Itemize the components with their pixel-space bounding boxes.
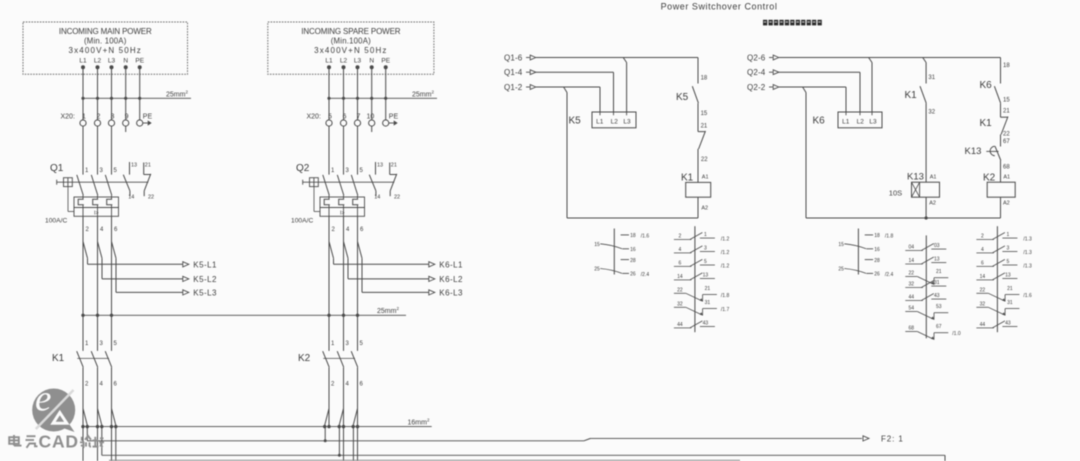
wire Q1-6 feed — [536, 57, 698, 59]
K2 output jog 3 — [353, 409, 357, 426]
arrow F2: 1 — [863, 436, 869, 441]
svg-text:L2: L2 — [611, 118, 619, 125]
Q1 main contact pole 1-2 — [77, 175, 84, 196]
svg-text:68: 68 — [909, 326, 915, 332]
PE arrow — [389, 122, 394, 124]
K2 linkage line — [323, 357, 355, 359]
K1 linkage line — [77, 357, 109, 359]
svg-text:4: 4 — [679, 247, 682, 253]
svg-text:N: N — [123, 58, 128, 65]
svg-text:28: 28 — [874, 258, 880, 264]
contact cross-reference K1 — [694, 226, 696, 332]
wire 5 to breaker Q2 — [357, 126, 359, 175]
svg-text:21: 21 — [705, 286, 711, 292]
bus L2 feed — [86, 427, 88, 441]
wire L3 main drop — [111, 67, 113, 120]
cable marker 25mm2 spare — [329, 97, 437, 99]
svg-text:13: 13 — [1005, 273, 1011, 279]
wire L1 spare drop — [328, 67, 330, 120]
wire K2.4 down — [343, 367, 345, 461]
K1 output jog 3 — [112, 409, 116, 426]
Q1 main contact pole 3-4 — [91, 175, 98, 196]
svg-text:/1.3: /1.3 — [1023, 237, 1032, 243]
wire N spare drop — [371, 67, 373, 120]
K2 output jog down — [352, 427, 354, 461]
incoming spare power source box — [268, 22, 434, 74]
branch to K5 L2 — [613, 72, 615, 112]
tap wire K6-L2 — [344, 242, 349, 259]
svg-text:/1.8: /1.8 — [885, 233, 894, 239]
svg-text:15: 15 — [838, 242, 844, 248]
svg-text:6: 6 — [981, 260, 984, 266]
Q2 main contact pole 5-6 — [351, 175, 358, 196]
svg-text:44: 44 — [909, 295, 915, 301]
svg-text:25mm2: 25mm2 — [412, 89, 434, 98]
Q1 trip linkage — [67, 187, 69, 212]
svg-text:L3: L3 — [108, 58, 116, 65]
svg-text:K6-L2: K6-L2 — [439, 275, 463, 284]
K2 main contact 5-6 — [351, 351, 358, 367]
terminal X20:10 — [369, 120, 375, 126]
svg-text:K6-L3: K6-L3 — [439, 289, 463, 298]
watermark text — [9, 435, 21, 446]
wire K1.6 down — [111, 367, 113, 461]
svg-text:2: 2 — [981, 234, 984, 240]
svg-text:PE: PE — [135, 58, 144, 65]
svg-text:6: 6 — [679, 260, 682, 266]
svg-text:18: 18 — [630, 233, 636, 239]
svg-text:/1.6: /1.6 — [1023, 293, 1032, 299]
contact cross-reference K2 — [996, 226, 998, 332]
svg-text:22: 22 — [909, 271, 915, 277]
svg-text:L3: L3 — [354, 58, 362, 65]
svg-text:15: 15 — [701, 111, 708, 117]
svg-text:21: 21 — [701, 123, 708, 129]
wire K2.6 down — [357, 367, 359, 461]
wire N stub below terminal — [371, 126, 373, 132]
svg-text:14: 14 — [128, 195, 134, 201]
K2 output jog to bus L3 — [338, 427, 340, 456]
svg-text:68: 68 — [1003, 164, 1010, 170]
svg-text:Q1-6: Q1-6 — [504, 53, 523, 62]
svg-text:67: 67 — [936, 324, 942, 330]
svg-text:54: 54 — [909, 306, 915, 312]
svg-text:5: 5 — [704, 259, 707, 265]
svg-text:13: 13 — [934, 257, 940, 263]
svg-text:Q1-2: Q1-2 — [504, 83, 523, 92]
tap wire K5-L3 — [112, 242, 117, 259]
svg-text:L3: L3 — [869, 118, 877, 125]
wire L1 main drop — [82, 67, 84, 120]
svg-text:K5-L1: K5-L1 — [193, 261, 217, 270]
svg-text:10: 10 — [367, 114, 375, 121]
wire Q2.2 down — [328, 216, 330, 351]
wire 5 to breaker Q1 — [111, 126, 113, 175]
wire N stub below terminal — [125, 126, 127, 132]
svg-text:L1: L1 — [79, 58, 87, 65]
branch to K1 31 contact — [923, 58, 926, 63]
svg-text:(Min.100A): (Min.100A) — [331, 37, 371, 46]
branch to K6 L1 — [845, 87, 847, 112]
svg-text:16: 16 — [874, 247, 880, 253]
svg-text:18: 18 — [1003, 63, 1010, 69]
source terminal dots main — [81, 65, 85, 69]
svg-text:/1.0: /1.0 — [952, 331, 961, 337]
K1 main contact 1-2 — [77, 351, 84, 367]
branch Q2-2 to return rail — [803, 87, 806, 93]
wire Q2.6 down — [357, 216, 359, 351]
svg-text:31: 31 — [928, 75, 935, 81]
Q1 aux NC contact 21-22 — [143, 163, 145, 175]
svg-text:L2: L2 — [340, 58, 348, 65]
Q2 aux NC contact 21-22 — [389, 163, 391, 175]
svg-text:Q1: Q1 — [50, 163, 64, 174]
svg-text:I>: I> — [94, 210, 98, 216]
tap wire K6-L3 — [358, 242, 363, 259]
svg-text:3x400V+N 50Hz: 3x400V+N 50Hz — [314, 46, 387, 55]
svg-text:2: 2 — [679, 234, 682, 240]
svg-text:A1: A1 — [930, 174, 937, 180]
wire K1.4 down — [97, 367, 99, 461]
control rail right K5 branch — [697, 58, 699, 84]
svg-text:31: 31 — [1007, 300, 1013, 306]
svg-text:/1.3: /1.3 — [1023, 263, 1032, 269]
contact cross-reference K13 — [925, 235, 927, 338]
svg-text:43: 43 — [703, 321, 709, 327]
wire Q2-4 feed — [779, 71, 860, 73]
svg-text:28: 28 — [630, 258, 636, 264]
wire 3 to breaker Q1 — [97, 126, 99, 175]
source terminal dots spare — [327, 65, 331, 69]
svg-text:32: 32 — [928, 109, 935, 115]
contact cross-reference K5 — [613, 229, 615, 275]
svg-text:25mm2: 25mm2 — [377, 306, 399, 315]
terminal X20:7 — [354, 120, 360, 126]
incoming main power source box — [23, 22, 188, 74]
arrow K5-L2 — [183, 276, 189, 281]
svg-text:K5-L3: K5-L3 — [193, 289, 217, 298]
svg-text:K5: K5 — [569, 116, 582, 127]
tap wire K5-L1 — [83, 242, 88, 259]
svg-text:K5: K5 — [676, 92, 689, 103]
svg-text:Q1-4: Q1-4 — [504, 68, 523, 77]
K1 main contact 5-6 — [105, 351, 112, 367]
svg-text:13: 13 — [377, 163, 383, 169]
svg-text:14: 14 — [980, 274, 986, 280]
svg-text:4: 4 — [981, 247, 984, 253]
K1 output jog 1 — [83, 409, 87, 426]
svg-text:A2: A2 — [701, 205, 708, 211]
K2 output jog 1 — [325, 409, 329, 426]
svg-text:100A/C: 100A/C — [291, 218, 313, 225]
terminal X20:1 — [80, 120, 86, 126]
svg-text:100A/C: 100A/C — [45, 218, 67, 225]
svg-text:03: 03 — [934, 243, 940, 249]
svg-text:67: 67 — [1003, 139, 1010, 145]
terminal X20:3 — [108, 120, 114, 126]
wire Q1.2 down — [82, 216, 84, 351]
wire Q2.4 down — [343, 216, 345, 351]
wire PE spare drop — [385, 67, 387, 120]
wire L2 spare drop — [343, 67, 345, 120]
watermark logo — [32, 389, 75, 432]
tap wire K5-L2 — [98, 242, 103, 259]
K2 main contact 1-2 — [323, 351, 330, 367]
terminal X20:5 — [326, 120, 332, 126]
arrow K5-L3 — [183, 290, 189, 295]
cable marker 25mm2 main — [83, 97, 191, 99]
K2 output jog 2 — [339, 409, 343, 426]
svg-text:14: 14 — [374, 195, 380, 201]
svg-text:31: 31 — [934, 280, 940, 286]
subtitle Chinese 主备用电源切换控制电路 — [763, 20, 822, 26]
svg-text:15: 15 — [1003, 97, 1010, 103]
bus 25mm2 between breakers and contactors — [83, 314, 406, 316]
Q1 aux NO contact 13-14 — [129, 162, 131, 175]
Q2 trip linkage — [313, 187, 315, 212]
svg-text:43: 43 — [934, 293, 940, 299]
svg-text:Q2-4: Q2-4 — [747, 68, 766, 77]
svg-text:/1.6: /1.6 — [641, 233, 650, 239]
K2 main contact 3-4 — [337, 351, 344, 367]
svg-text:/1.7: /1.7 — [721, 307, 730, 313]
svg-text:21: 21 — [391, 163, 397, 169]
Q1 main contact pole 5-6 — [105, 175, 112, 196]
arrow K5-L1 — [183, 262, 189, 267]
wire PE main drop — [139, 67, 141, 120]
wire stub phase jog right — [115, 427, 117, 461]
svg-text:/2.4: /2.4 — [885, 272, 894, 278]
svg-text:3x400V+N 50Hz: 3x400V+N 50Hz — [69, 46, 142, 55]
svg-text:1: 1 — [1007, 232, 1010, 238]
terminal X20:PE — [137, 120, 143, 126]
return rail K5 branch — [567, 217, 698, 219]
svg-text:K5-L2: K5-L2 — [193, 275, 217, 284]
svg-text:Q2-6: Q2-6 — [747, 53, 766, 62]
PE arrow — [143, 122, 148, 124]
svg-text:K6-L1: K6-L1 — [439, 261, 463, 270]
wire Q1.6 down — [111, 216, 113, 351]
terminal X20:9 — [123, 120, 129, 126]
svg-text:K1: K1 — [905, 90, 918, 101]
terminal X20:2 — [94, 120, 100, 126]
svg-text:A2: A2 — [1003, 201, 1010, 207]
phase monitor relay K5 box — [592, 112, 636, 128]
wire 3 to breaker Q2 — [343, 126, 345, 175]
Q1 operating handle box — [64, 178, 73, 187]
svg-text:3: 3 — [1007, 246, 1010, 252]
svg-text:15: 15 — [594, 242, 600, 248]
svg-text:10S: 10S — [889, 188, 902, 197]
svg-text:Q2-2: Q2-2 — [747, 83, 766, 92]
Q2 main contact pole 3-4 — [337, 175, 344, 196]
terminal X20:PE — [383, 120, 389, 126]
svg-text:K6: K6 — [980, 80, 993, 91]
Q1 thermal overload block — [74, 197, 119, 208]
bus L3 feed — [101, 427, 103, 456]
K2 coil branch rail — [1000, 58, 1002, 84]
svg-text:L2: L2 — [94, 58, 102, 65]
svg-text:INCOMING SPARE POWER: INCOMING SPARE POWER — [301, 27, 400, 36]
svg-text:INCOMING MAIN POWER: INCOMING MAIN POWER — [59, 27, 152, 36]
bottom bus L1 16mm2 — [82, 426, 432, 428]
svg-text:32: 32 — [909, 282, 915, 288]
Q2 mechanism linkage — [302, 180, 304, 185]
svg-text:A1: A1 — [1003, 174, 1010, 180]
Q2 thermal overload block — [320, 197, 365, 208]
svg-text:L1: L1 — [842, 118, 850, 125]
svg-text:18: 18 — [701, 75, 708, 81]
svg-text:A2: A2 — [929, 201, 936, 207]
K1 output jog 2 — [98, 409, 102, 426]
wire Q1-2 feed — [536, 86, 600, 88]
svg-text:F2: 1: F2: 1 — [881, 435, 904, 444]
svg-text:I>: I> — [340, 210, 344, 216]
svg-text:PE: PE — [389, 114, 399, 121]
svg-text:22: 22 — [980, 287, 986, 293]
svg-text:K1: K1 — [980, 118, 993, 129]
svg-text:16: 16 — [630, 247, 636, 253]
svg-text:L3: L3 — [623, 118, 631, 125]
svg-text:04: 04 — [909, 245, 915, 251]
wire 1 to breaker Q2 — [328, 126, 330, 175]
svg-text:e: e — [35, 379, 51, 420]
branch to K6 L2 — [859, 72, 861, 112]
svg-text:22: 22 — [148, 195, 154, 201]
svg-text:21: 21 — [1003, 109, 1010, 115]
svg-text:22: 22 — [394, 195, 400, 201]
svg-text:X20:: X20: — [307, 114, 321, 121]
svg-text:PE: PE — [143, 114, 153, 121]
svg-text:A1: A1 — [702, 174, 709, 180]
svg-text:K1: K1 — [52, 353, 65, 364]
svg-text:21: 21 — [936, 269, 942, 275]
svg-text:31: 31 — [705, 300, 711, 306]
svg-text:44: 44 — [677, 322, 683, 328]
branch Q1-2 to return rail — [564, 87, 567, 93]
svg-text:18: 18 — [874, 233, 880, 239]
contact cross-reference K6 — [857, 229, 859, 275]
svg-text:32: 32 — [677, 301, 683, 307]
svg-text:/1.2: /1.2 — [721, 263, 730, 269]
branch to K5 L1 — [599, 87, 601, 113]
svg-text:X20:: X20: — [61, 114, 75, 121]
svg-text:K13: K13 — [965, 146, 982, 157]
svg-text:25mm2: 25mm2 — [166, 89, 188, 98]
svg-text:5: 5 — [1007, 259, 1010, 265]
svg-text:22: 22 — [701, 157, 708, 163]
wire Q1-4 feed — [536, 71, 614, 73]
Q2 operating handle box — [310, 178, 319, 187]
svg-text:16mm2: 16mm2 — [408, 417, 430, 426]
timer branch rail — [925, 63, 927, 84]
svg-text:N: N — [369, 58, 374, 65]
K1 main contact 3-4 — [91, 351, 98, 367]
svg-text:25: 25 — [594, 267, 600, 273]
branch to K6 L3 — [869, 58, 872, 63]
wire Q2-6 feed — [779, 57, 1001, 59]
arrow K6-L3 — [429, 290, 435, 295]
wire L2 main drop — [97, 67, 99, 120]
phase monitor relay K6 box — [838, 112, 882, 128]
svg-text:L1: L1 — [596, 118, 604, 125]
Q2 main contact pole 1-2 — [323, 175, 330, 196]
svg-text:L1: L1 — [325, 58, 333, 65]
svg-text:1: 1 — [704, 232, 707, 238]
svg-text:K1: K1 — [681, 172, 694, 183]
arrow K6-L2 — [429, 276, 435, 281]
svg-text:/2.4: /2.4 — [641, 272, 650, 278]
svg-text:(Min. 100A): (Min. 100A) — [84, 37, 127, 46]
svg-text:Power Switchover Control: Power Switchover Control — [661, 2, 778, 12]
svg-text:K13: K13 — [907, 171, 924, 182]
svg-text:21: 21 — [1007, 286, 1013, 292]
svg-text:/1.2: /1.2 — [721, 250, 730, 256]
svg-text:K2: K2 — [983, 172, 996, 183]
Q1 mechanism linkage — [56, 180, 58, 185]
svg-text:/1.3: /1.3 — [1023, 250, 1032, 256]
wire Q2-2 feed — [779, 86, 846, 88]
Q2 aux NO contact 13-14 — [375, 162, 377, 175]
svg-text:14: 14 — [677, 274, 683, 280]
bus L2 jog to F2 — [584, 438, 591, 440]
svg-text:3: 3 — [704, 246, 707, 252]
wire Q1.4 down — [97, 216, 99, 351]
svg-text:K2: K2 — [298, 353, 311, 364]
svg-text:32: 32 — [980, 301, 986, 307]
return rail K6 branch — [806, 217, 1001, 219]
wire K1.2 down — [82, 367, 84, 461]
svg-text:/1.8: /1.8 — [721, 293, 730, 299]
svg-text:K6: K6 — [813, 116, 826, 127]
svg-text:13: 13 — [131, 163, 137, 169]
wire 1 to breaker Q1 — [82, 126, 84, 175]
svg-text:53: 53 — [936, 304, 942, 310]
wire N main drop — [125, 67, 127, 120]
svg-text:44: 44 — [980, 322, 986, 328]
svg-text:14: 14 — [909, 258, 915, 264]
svg-text:/1.2: /1.2 — [721, 237, 730, 243]
frame line next drawing — [109, 459, 740, 461]
svg-text:PE: PE — [381, 58, 390, 65]
svg-text:26: 26 — [630, 272, 636, 278]
svg-text:22: 22 — [677, 287, 683, 293]
svg-text:L2: L2 — [857, 118, 865, 125]
svg-text:13: 13 — [703, 273, 709, 279]
svg-text:22: 22 — [1003, 131, 1010, 137]
svg-text:21: 21 — [145, 163, 151, 169]
arrow K6-L1 — [429, 262, 435, 267]
branch to K5 L3 — [623, 58, 626, 63]
K2 output jog to bus L2 — [324, 427, 326, 441]
tap wire K6-L1 — [329, 242, 334, 259]
wire K2.2 down — [328, 367, 330, 426]
svg-text:25: 25 — [838, 267, 844, 273]
wire L3 spare drop — [357, 67, 359, 120]
svg-text:Q2: Q2 — [296, 163, 310, 174]
svg-text:26: 26 — [874, 272, 880, 278]
svg-text:43: 43 — [1005, 321, 1011, 327]
terminal X20:6 — [340, 120, 346, 126]
svg-text:CAD: CAD — [39, 431, 79, 451]
